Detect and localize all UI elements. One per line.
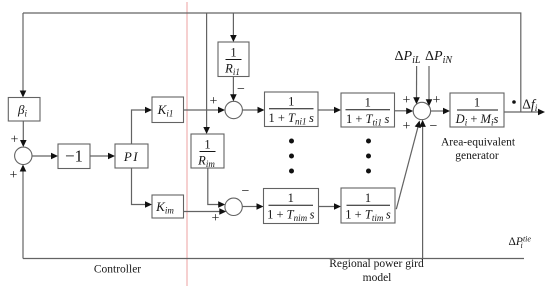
svg-text:1: 1 bbox=[204, 138, 210, 152]
svg-text:1: 1 bbox=[365, 191, 371, 205]
wire PI to K_i1 bbox=[132, 107, 153, 144]
svg-text:model: model bbox=[363, 272, 392, 284]
svg-text:1: 1 bbox=[288, 191, 294, 205]
svg-text:Area-equivalent: Area-equivalent bbox=[441, 137, 516, 149]
wire tie-line bottom bus bbox=[23, 258, 524, 260]
wire feedback top bus (from df_i tap) bbox=[23, 13, 521, 112]
svg-text:+: + bbox=[403, 119, 411, 134]
svg-text:ΔPiL: ΔPiL bbox=[395, 49, 421, 66]
block PI controller bbox=[115, 144, 148, 168]
block turbine m: 1/(1+T_tim s) bbox=[341, 188, 395, 223]
summing junction S3 bbox=[225, 198, 242, 215]
svg-text:1: 1 bbox=[474, 96, 480, 110]
wire 1/R_i1 to S2 bbox=[230, 77, 237, 102]
svg-text:1 + Ttim s: 1 + Ttim s bbox=[345, 208, 391, 224]
wire dP_iN to S4 bbox=[426, 66, 433, 106]
svg-text:1: 1 bbox=[288, 95, 294, 109]
svg-text:+: + bbox=[433, 93, 441, 108]
wire PI to K_im bbox=[132, 168, 153, 208]
svg-text:ΔPiN: ΔPiN bbox=[425, 49, 453, 66]
block K_i1 (participation factor 1) bbox=[152, 97, 184, 123]
separator line (pink guide) bbox=[186, 2, 188, 286]
svg-text:generator: generator bbox=[455, 150, 499, 162]
svg-text:−: − bbox=[237, 82, 245, 97]
svg-text:−1: −1 bbox=[65, 146, 83, 165]
wire S4 to tie-line bus bbox=[419, 120, 426, 259]
wire turbine 1 to S4 bbox=[395, 108, 414, 115]
summing junction S1 (ACE) bbox=[15, 147, 32, 164]
svg-text:−: − bbox=[430, 119, 438, 134]
wire S1 to block -1 bbox=[32, 153, 58, 160]
caption Regional power gird model bbox=[329, 258, 424, 284]
wire feedback branch to droop 1/R_im bbox=[203, 13, 210, 134]
svg-text:+: + bbox=[210, 94, 218, 109]
svg-text:1 + Tnim s: 1 + Tnim s bbox=[267, 208, 315, 224]
wire 1/R_im to S3 bbox=[208, 168, 225, 208]
wire feedback branch to droop 1/R_i1 bbox=[230, 13, 237, 42]
summing junction S2 bbox=[225, 101, 242, 118]
block droop 1/R_im bbox=[191, 134, 224, 169]
svg-text:1: 1 bbox=[365, 96, 371, 110]
svg-text:+: + bbox=[212, 211, 220, 226]
wire governor 1 to turbine 1 bbox=[318, 107, 341, 114]
svg-text:+: + bbox=[10, 168, 18, 183]
svg-text:Δfi: Δfi bbox=[522, 97, 537, 115]
block turbine 1: 1/(1+T_ti1 s) bbox=[341, 93, 395, 128]
wire K_i1 to summing junction S2 bbox=[184, 107, 226, 114]
block generator 1/(D_i + M_i s) bbox=[450, 93, 504, 128]
block -1 bbox=[58, 144, 90, 169]
svg-text:1 + Tni1 s: 1 + Tni1 s bbox=[268, 111, 314, 127]
wire beta_i to summing junction S1 bbox=[20, 121, 27, 147]
block beta_i (frequency bias) bbox=[8, 98, 40, 122]
block droop 1/R_i1 bbox=[218, 42, 249, 77]
svg-text:−: − bbox=[242, 184, 250, 199]
node output tap dot bbox=[512, 100, 516, 104]
block governor 1: 1/(1+T_ni1 s) bbox=[265, 92, 319, 127]
caption Area-equivalent generator bbox=[441, 137, 516, 162]
svg-text:ΔPtiei: ΔPtiei bbox=[509, 234, 532, 250]
wire tie-line bus to S1 bbox=[20, 165, 27, 259]
block governor m: 1/(1+T_nim s) bbox=[264, 189, 319, 224]
wire -1 to PI bbox=[90, 153, 115, 160]
wire generator output to df_i bbox=[504, 109, 545, 116]
svg-text:Regional power gird: Regional power gird bbox=[329, 258, 424, 270]
svg-text:1: 1 bbox=[230, 46, 236, 60]
svg-text:Controller: Controller bbox=[94, 264, 141, 276]
wire turbine m to S4 (diagonal) bbox=[396, 121, 421, 210]
wire governor m to turbine m bbox=[319, 203, 342, 210]
svg-text:1 + Tti1 s: 1 + Tti1 s bbox=[346, 112, 390, 128]
wire S4 to generator block bbox=[431, 108, 450, 115]
summing junction S4 (power balance) bbox=[413, 102, 430, 119]
wire dP_iL to S4 bbox=[413, 66, 420, 104]
svg-text:+: + bbox=[11, 133, 19, 148]
vdots column 1 bbox=[289, 139, 294, 174]
block K_im (participation factor m) bbox=[152, 195, 184, 218]
wire S2 to governor block 1 bbox=[242, 107, 264, 114]
svg-text:+: + bbox=[403, 93, 411, 108]
wire feedback branch to beta_i bbox=[20, 13, 27, 98]
wire S3 to governor block m bbox=[242, 203, 263, 210]
wire K_im to summing junction S3 bbox=[184, 208, 227, 215]
svg-text:PI: PI bbox=[123, 149, 139, 164]
vdots column 2 bbox=[366, 139, 371, 174]
